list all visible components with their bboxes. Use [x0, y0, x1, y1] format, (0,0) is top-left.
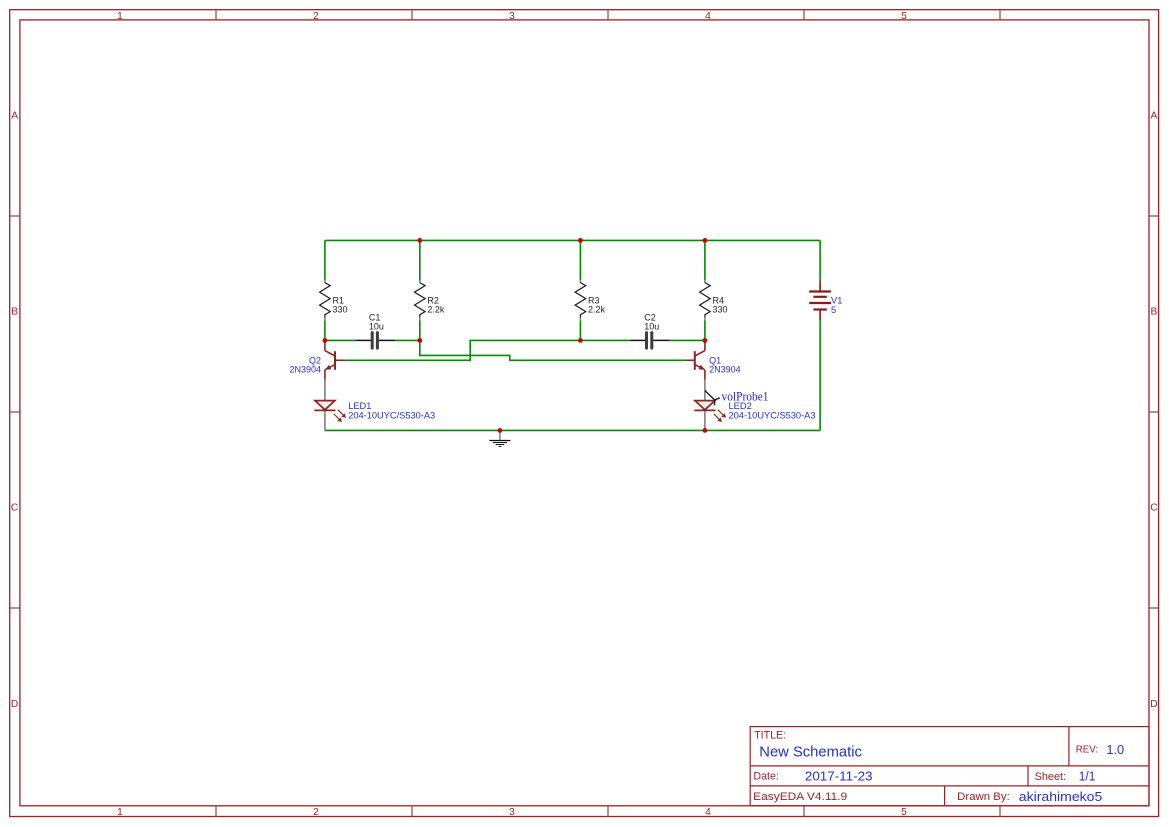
svg-text:2: 2: [313, 807, 319, 818]
svg-text:EasyEDA V4.11.9: EasyEDA V4.11.9: [753, 791, 847, 803]
junction LED2 bottom node: [703, 428, 708, 433]
svg-text:1.0: 1.0: [1106, 743, 1124, 757]
svg-text:2.2k: 2.2k: [588, 305, 606, 315]
junction R3 bottom node: [578, 338, 583, 343]
wire R1 bottom: [324, 320, 326, 340]
capacitor C1: [356, 312, 395, 348]
junction R4 top: [703, 238, 708, 243]
svg-text:5: 5: [901, 11, 907, 22]
svg-text:Sheet:: Sheet:: [1035, 771, 1067, 783]
ground: [489, 430, 510, 446]
svg-text:akirahimeko5: akirahimeko5: [1019, 789, 1103, 804]
svg-text:1: 1: [117, 807, 123, 818]
wire R4 top stub: [704, 240, 706, 280]
wire R3 top stub: [579, 240, 581, 280]
wire top rail: [325, 239, 820, 241]
svg-text:204-10UYC/S530-A3: 204-10UYC/S530-A3: [729, 410, 816, 420]
svg-text:4: 4: [705, 807, 711, 818]
ruler letters right: [1150, 110, 1157, 710]
svg-text:Drawn By:: Drawn By:: [957, 791, 1010, 803]
ruler numbers bottom: [117, 807, 907, 818]
wire Q2 base to C2 row (jog up): [346, 340, 581, 360]
svg-text:D: D: [1150, 699, 1157, 710]
svg-text:New Schematic: New Schematic: [759, 745, 862, 761]
junction Q1 collector node: [703, 338, 708, 343]
svg-text:C: C: [1150, 502, 1157, 513]
battery V1: [809, 281, 842, 320]
svg-text:4: 4: [705, 11, 711, 22]
LED2: [694, 380, 815, 431]
junction Q2 collector node: [323, 338, 328, 343]
svg-text:330: 330: [713, 305, 728, 315]
svg-text:TITLE:: TITLE:: [754, 730, 786, 742]
resistor R4: [700, 280, 728, 320]
svg-text:A: A: [1151, 110, 1158, 121]
svg-text:3: 3: [509, 807, 515, 818]
svg-text:5: 5: [901, 807, 907, 818]
ruler numbers top: [117, 11, 907, 22]
ruler letters left: [11, 110, 18, 710]
wire battery bottom drop: [819, 320, 821, 430]
transistor Q2: [289, 340, 345, 379]
svg-text:B: B: [11, 306, 18, 317]
capacitor C2: [630, 312, 670, 348]
svg-text:D: D: [11, 699, 18, 710]
junction R2 top: [417, 238, 422, 243]
resistor R2: [415, 280, 445, 320]
wire battery top drop: [819, 240, 821, 280]
svg-text:204-10UYC/S530-A3: 204-10UYC/S530-A3: [348, 410, 435, 420]
svg-text:B: B: [1151, 306, 1158, 317]
LED1: [314, 380, 435, 431]
svg-text:A: A: [11, 110, 18, 121]
svg-text:5: 5: [831, 305, 836, 315]
junction R3 top: [578, 238, 583, 243]
resistor R1: [320, 280, 348, 320]
wire C2 row left green: [580, 339, 630, 341]
svg-text:3: 3: [509, 11, 515, 22]
wire bottom rail: [325, 429, 820, 431]
wire R3 bottom: [579, 320, 581, 340]
junction R2 bottom node: [417, 338, 422, 343]
svg-text:2N3904: 2N3904: [709, 364, 741, 374]
junction ground node: [498, 428, 503, 433]
title block text: [753, 730, 1124, 804]
title block frame: [750, 727, 1149, 806]
wire left drop to R1: [324, 240, 326, 280]
transistor Q1: [685, 340, 741, 379]
svg-text:2017-11-23: 2017-11-23: [805, 769, 873, 783]
svg-text:Date:: Date:: [753, 771, 779, 783]
svg-text:1: 1: [117, 11, 123, 22]
svg-text:C: C: [11, 502, 18, 513]
wire C2 row right green: [670, 339, 705, 341]
wire C1 row right green: [395, 339, 420, 341]
svg-text:330: 330: [333, 305, 348, 315]
wire R2 to Q1 base (jog): [420, 340, 685, 360]
svg-text:1/1: 1/1: [1079, 769, 1096, 783]
wire R4 bottom: [704, 320, 706, 340]
wire R2 bottom: [419, 320, 421, 340]
svg-text:volProbe1: volProbe1: [722, 390, 769, 404]
svg-text:LED1: LED1: [348, 401, 371, 411]
wire C1 row left green: [325, 339, 356, 341]
svg-text:10u: 10u: [369, 322, 384, 332]
svg-text:2.2k: 2.2k: [427, 305, 445, 315]
svg-text:10u: 10u: [644, 322, 659, 332]
svg-text:V1: V1: [831, 295, 842, 305]
svg-text:2: 2: [313, 11, 319, 22]
svg-text:REV:: REV:: [1076, 743, 1098, 755]
resistor R3: [575, 280, 605, 320]
wire R2 top stub: [419, 240, 421, 280]
voltage probe volProbe1: [705, 390, 769, 406]
svg-text:2N3904: 2N3904: [289, 364, 321, 374]
